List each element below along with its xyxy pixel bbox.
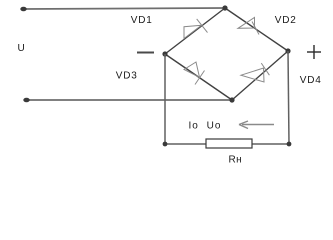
arrow: output current direction (pointing left) [239,121,274,129]
wire: plus rail down from right vertex [288,51,289,144]
svg-text:VD2: VD2 [275,15,297,26]
svg-text:Io Uo: Io Uo [189,121,222,132]
wire: bridge edge top-to-right [225,8,288,51]
svg-text:U: U [18,43,26,54]
node: bridge left vertex (minus output) [162,51,167,56]
wire: minus rail down from left vertex [164,54,166,144]
wire: bottom rail right segment [252,143,289,145]
terminal: top-left input [20,7,26,12]
label: minus polarity [137,52,154,54]
diode VD3 [184,62,205,85]
wire: bridge edge left-to-bottom [165,54,232,100]
svg-text:VD3: VD3 [116,71,138,82]
node: bottom rail right junction [287,142,292,147]
wire: bridge edge left-to-top [165,8,225,54]
svg-text:VD1: VD1 [131,15,153,26]
wire: bottom rail left segment [165,143,206,145]
label: plus polarity [307,45,321,59]
svg-text:Rн: Rн [229,155,243,166]
node: bottom rail left junction [163,142,168,147]
diode VD1 [184,19,208,39]
wire: top AC input [23,8,225,9]
node: bridge bottom vertex [229,97,234,102]
wire: bottom AC input [26,99,232,101]
node: bridge top vertex [222,5,227,10]
diode VD4 [241,63,269,82]
wire: bridge edge bottom-to-right [232,51,288,100]
resistor Rn (load) [206,139,252,148]
svg-text:VD4: VD4 [300,75,322,86]
terminal: bottom-left input [23,98,29,103]
node: bridge right vertex (plus output) [285,48,290,53]
diode VD2 [238,17,259,34]
